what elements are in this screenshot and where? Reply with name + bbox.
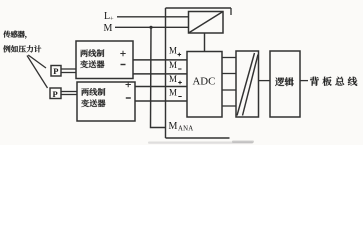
svg-text:M: M: [104, 23, 113, 34]
wire channel2 M+: [135, 86, 187, 88]
leader line to sensor P1: [28, 55, 46, 68]
svg-text:P: P: [53, 89, 58, 99]
wire M to M_ANA vertical drop: [151, 27, 166, 127]
logic box 逻辑: [270, 51, 300, 117]
svg-text:ADC: ADC: [193, 76, 216, 88]
transmitter 1 minus terminal: [121, 64, 126, 66]
label: sensor caption line2 例如压力计: [3, 45, 41, 52]
wire ADC to isolation 2: [222, 73, 236, 75]
isolation diagonal 2: [243, 55, 259, 116]
svg-text:+: +: [110, 16, 114, 23]
wire channel1 M-: [133, 73, 187, 75]
svg-text:ANA: ANA: [178, 126, 193, 133]
transmitter 2 plus terminal: [126, 82, 131, 87]
svg-text:M: M: [169, 121, 178, 132]
leader line to sensor P2: [27, 56, 48, 89]
wire ADC to isolation 3: [222, 89, 236, 91]
wire L+: [117, 16, 189, 18]
wire logic to backplane bus: [300, 80, 308, 82]
module outline bottom edge: [166, 137, 230, 139]
transmitter 1 plus terminal: [120, 51, 125, 56]
svg-text:M: M: [169, 46, 177, 56]
wire channel2 M-: [135, 100, 187, 102]
DC/DC converter box: [189, 12, 224, 34]
module outline right stub: [230, 8, 232, 15]
wire M: [115, 26, 189, 28]
svg-text:M: M: [169, 60, 177, 70]
svg-text:M: M: [169, 87, 177, 97]
isolation diagonal 1: [237, 53, 255, 116]
label backplane bus 背板总线: [310, 77, 357, 86]
label: sensor caption line1 传感器，: [3, 31, 26, 39]
wire DC/DC to ADC: [204, 33, 206, 52]
transmitter 2 minus terminal: [126, 97, 131, 99]
junction dot on M wire: [149, 26, 152, 29]
scan smudge bottom: [148, 142, 253, 144]
sensor P1 box: [51, 66, 61, 77]
isolation barrier box: [236, 51, 259, 117]
wire ADC to isolation 1: [222, 57, 236, 59]
module outline left edge: [165, 8, 167, 138]
wire ADC to isolation 4: [222, 105, 236, 107]
double wire P2 to transmitter 2: [61, 91, 77, 93]
wire channel1 M+: [133, 59, 187, 61]
svg-text:M: M: [169, 74, 177, 84]
op block ADC box: [187, 52, 222, 118]
double wire P1 to transmitter 1: [61, 68, 76, 70]
module outline top edge: [166, 7, 232, 9]
wire isolation to logic: [259, 80, 271, 82]
transmitter 1 box 两线制变送器: [76, 41, 133, 79]
sensor P2 box: [50, 88, 61, 99]
svg-text:P: P: [53, 66, 58, 76]
transmitter 2 box 两线制变送器: [77, 82, 135, 121]
DC/DC converter diagonal: [189, 12, 224, 34]
